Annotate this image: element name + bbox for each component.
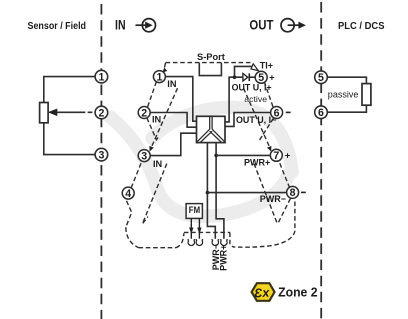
S-Port dashed line <box>166 62 252 64</box>
svg-text:+: + <box>269 72 275 83</box>
svg-text:Ɛx: Ɛx <box>254 285 271 300</box>
junction node PWR- <box>206 191 210 195</box>
svg-text:OUT: OUT <box>249 18 274 33</box>
svg-text:5: 5 <box>258 72 264 84</box>
module terminal 1 <box>153 71 165 84</box>
svg-text:8: 8 <box>290 187 296 199</box>
socket contact PWR- <box>212 239 219 245</box>
module terminal 8 <box>287 186 299 199</box>
junction node PWR+ <box>214 154 218 158</box>
svg-text:active: active <box>244 94 267 104</box>
isolator inverted-Y symbol <box>197 116 224 142</box>
wire OUT+ box to diode line <box>225 77 243 122</box>
header IN icon <box>136 19 156 32</box>
wire PWR- from box bottom left <box>207 143 215 239</box>
module terminal 3 <box>138 150 150 163</box>
svg-text:passive: passive <box>328 89 359 99</box>
wire PWR+ from box bottom right <box>216 143 224 239</box>
svg-text:PWR+: PWR+ <box>244 158 270 168</box>
svg-text:OUT U, I+: OUT U, I+ <box>232 82 272 92</box>
svg-text:3: 3 <box>141 150 147 162</box>
svg-text:3: 3 <box>98 149 104 161</box>
wire module terminal 2 to box <box>150 113 197 128</box>
module terminal 5 <box>255 71 267 84</box>
right zone border (dashed) <box>320 2 322 319</box>
wire PLC terminal 5 to resistor <box>327 77 366 83</box>
svg-text:6: 6 <box>274 107 280 119</box>
socket contact under FM right <box>196 239 203 245</box>
module terminal 6 <box>271 107 283 120</box>
S-Port connector bracket <box>199 63 221 76</box>
wire PLC terminal 6 to resistor <box>327 105 366 112</box>
TI+ open arrowhead at terminal 5 <box>251 64 258 71</box>
svg-text:FM: FM <box>189 205 200 216</box>
svg-text:2: 2 <box>141 107 147 119</box>
module terminal 2 <box>138 107 150 120</box>
svg-text:TI+: TI+ <box>260 60 273 70</box>
wire module terminal 1 to box <box>165 77 196 122</box>
FM box <box>186 204 202 219</box>
svg-text:PLC / DCS: PLC / DCS <box>338 21 385 32</box>
module terminal 7 <box>270 149 282 162</box>
isolator box U1 <box>197 116 226 142</box>
svg-text:IN: IN <box>152 115 162 125</box>
polarity - at terminal 8 <box>301 191 306 193</box>
field terminal 3 <box>95 148 108 161</box>
header OUT icon <box>281 19 299 32</box>
junction node <box>233 75 237 79</box>
potentiometer (sensor) <box>40 103 49 123</box>
svg-text:1: 1 <box>156 71 162 83</box>
svg-text:IN: IN <box>167 79 177 89</box>
left zone border (dashed) <box>100 4 102 319</box>
field terminal 1 <box>95 70 108 83</box>
svg-text:PWR−: PWR− <box>260 194 286 204</box>
svg-text:Sensor / Field: Sensor / Field <box>28 21 87 32</box>
passive load resistor <box>362 84 371 106</box>
S-Port arrow into module terminal 1 <box>165 63 166 68</box>
arrowhead into module terminal 7 <box>267 146 271 152</box>
PLC terminal 5 <box>315 71 328 84</box>
svg-text:Zone 2: Zone 2 <box>278 285 318 300</box>
wiper dashed wire from field terminal 2 <box>57 111 81 113</box>
module terminal 4 <box>122 187 134 200</box>
FM arrow left <box>190 218 192 238</box>
FM arrow right <box>198 218 200 238</box>
wire field terminal 1 to potentiometer <box>44 77 95 103</box>
wiper arrowhead <box>48 109 58 117</box>
socket contact under FM left <box>188 239 195 245</box>
wire to module terminal 8 <box>207 192 287 194</box>
svg-text:PWR+: PWR+ <box>219 245 229 271</box>
wire to module terminal 7 <box>216 154 271 156</box>
svg-text:4: 4 <box>125 188 131 200</box>
svg-text:1: 1 <box>98 71 104 83</box>
svg-text:6: 6 <box>318 107 324 119</box>
svg-text:+: + <box>285 151 291 162</box>
svg-text:IN: IN <box>153 159 163 169</box>
socket contact PWR+ <box>220 239 227 245</box>
PLC terminal 6 <box>315 106 328 119</box>
wire field terminal 3 to potentiometer <box>44 123 95 155</box>
Ex hexagon logo <box>252 283 275 301</box>
watermark swirl <box>110 108 292 217</box>
polarity - at terminal 6 <box>286 111 291 113</box>
TI+ loop wire <box>235 66 254 77</box>
wire diode to module terminal 5 <box>249 76 255 78</box>
svg-text:7: 7 <box>273 150 279 162</box>
svg-text:5: 5 <box>318 72 324 84</box>
arrowhead into module terminal 3 <box>149 146 153 152</box>
wire OUT- box to terminal 6 <box>225 113 271 127</box>
svg-text:IN: IN <box>115 18 126 33</box>
field terminal 2 <box>95 106 108 119</box>
svg-text:2: 2 <box>98 107 104 119</box>
svg-text:OUT U, I−: OUT U, I− <box>236 115 276 125</box>
module outline dashed (left zigzag) <box>126 82 233 248</box>
module outline dashed (right zigzag) <box>233 82 295 248</box>
diode D1 <box>243 73 248 81</box>
wire module terminal 3 to box <box>150 133 197 155</box>
svg-text:S-Port: S-Port <box>197 52 225 62</box>
